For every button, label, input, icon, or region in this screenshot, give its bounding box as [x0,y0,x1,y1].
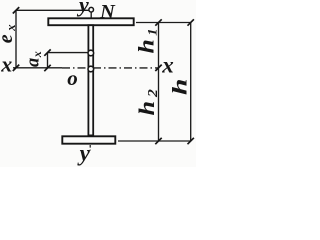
extension line a_x level [48,52,88,54]
web [88,25,93,135]
tick e_x top [13,7,19,13]
extension line at N level [16,9,89,11]
svg-text:x: x [0,51,12,76]
tick h2 bottom [155,138,161,144]
svg-text:o: o [67,66,78,90]
dimension line a_x [47,53,49,68]
top extension line to h dimension [136,22,191,24]
dimension line h [190,23,192,142]
label h (rotated) [167,78,191,95]
x-axis (centerline through o) [13,67,62,69]
tick h1/h2 at x-axis [155,65,161,71]
label a_x (rotated) [24,51,45,67]
dimension line e_x [15,10,17,68]
label h1 (rotated) [135,28,160,53]
y-axis segment above top flange [90,12,92,19]
tick h top [188,19,194,25]
dimension line h2 [158,68,160,141]
dimension line h1 [158,23,160,68]
tick e_x bottom [13,65,19,71]
top flange [48,18,133,25]
bottom flange [62,136,115,143]
label e_x (rotated) [0,25,18,44]
centroid o circle [88,66,94,72]
tick h bottom [188,138,194,144]
point N circle [89,7,94,12]
upper web point circle [88,50,94,56]
svg-text:y: y [77,141,91,166]
tick a_x top [44,49,50,55]
bottom extension line to h dimension [118,140,191,142]
svg-text:h: h [167,78,191,95]
y-axis segment below bottom flange [89,145,91,151]
y-axis centerline inside web [90,27,92,135]
label h2 (rotated) [135,89,161,115]
svg-text:x: x [161,52,174,77]
tick a_x bottom [44,65,50,71]
svg-text:N: N [99,1,116,23]
tick h1 top [155,19,161,25]
